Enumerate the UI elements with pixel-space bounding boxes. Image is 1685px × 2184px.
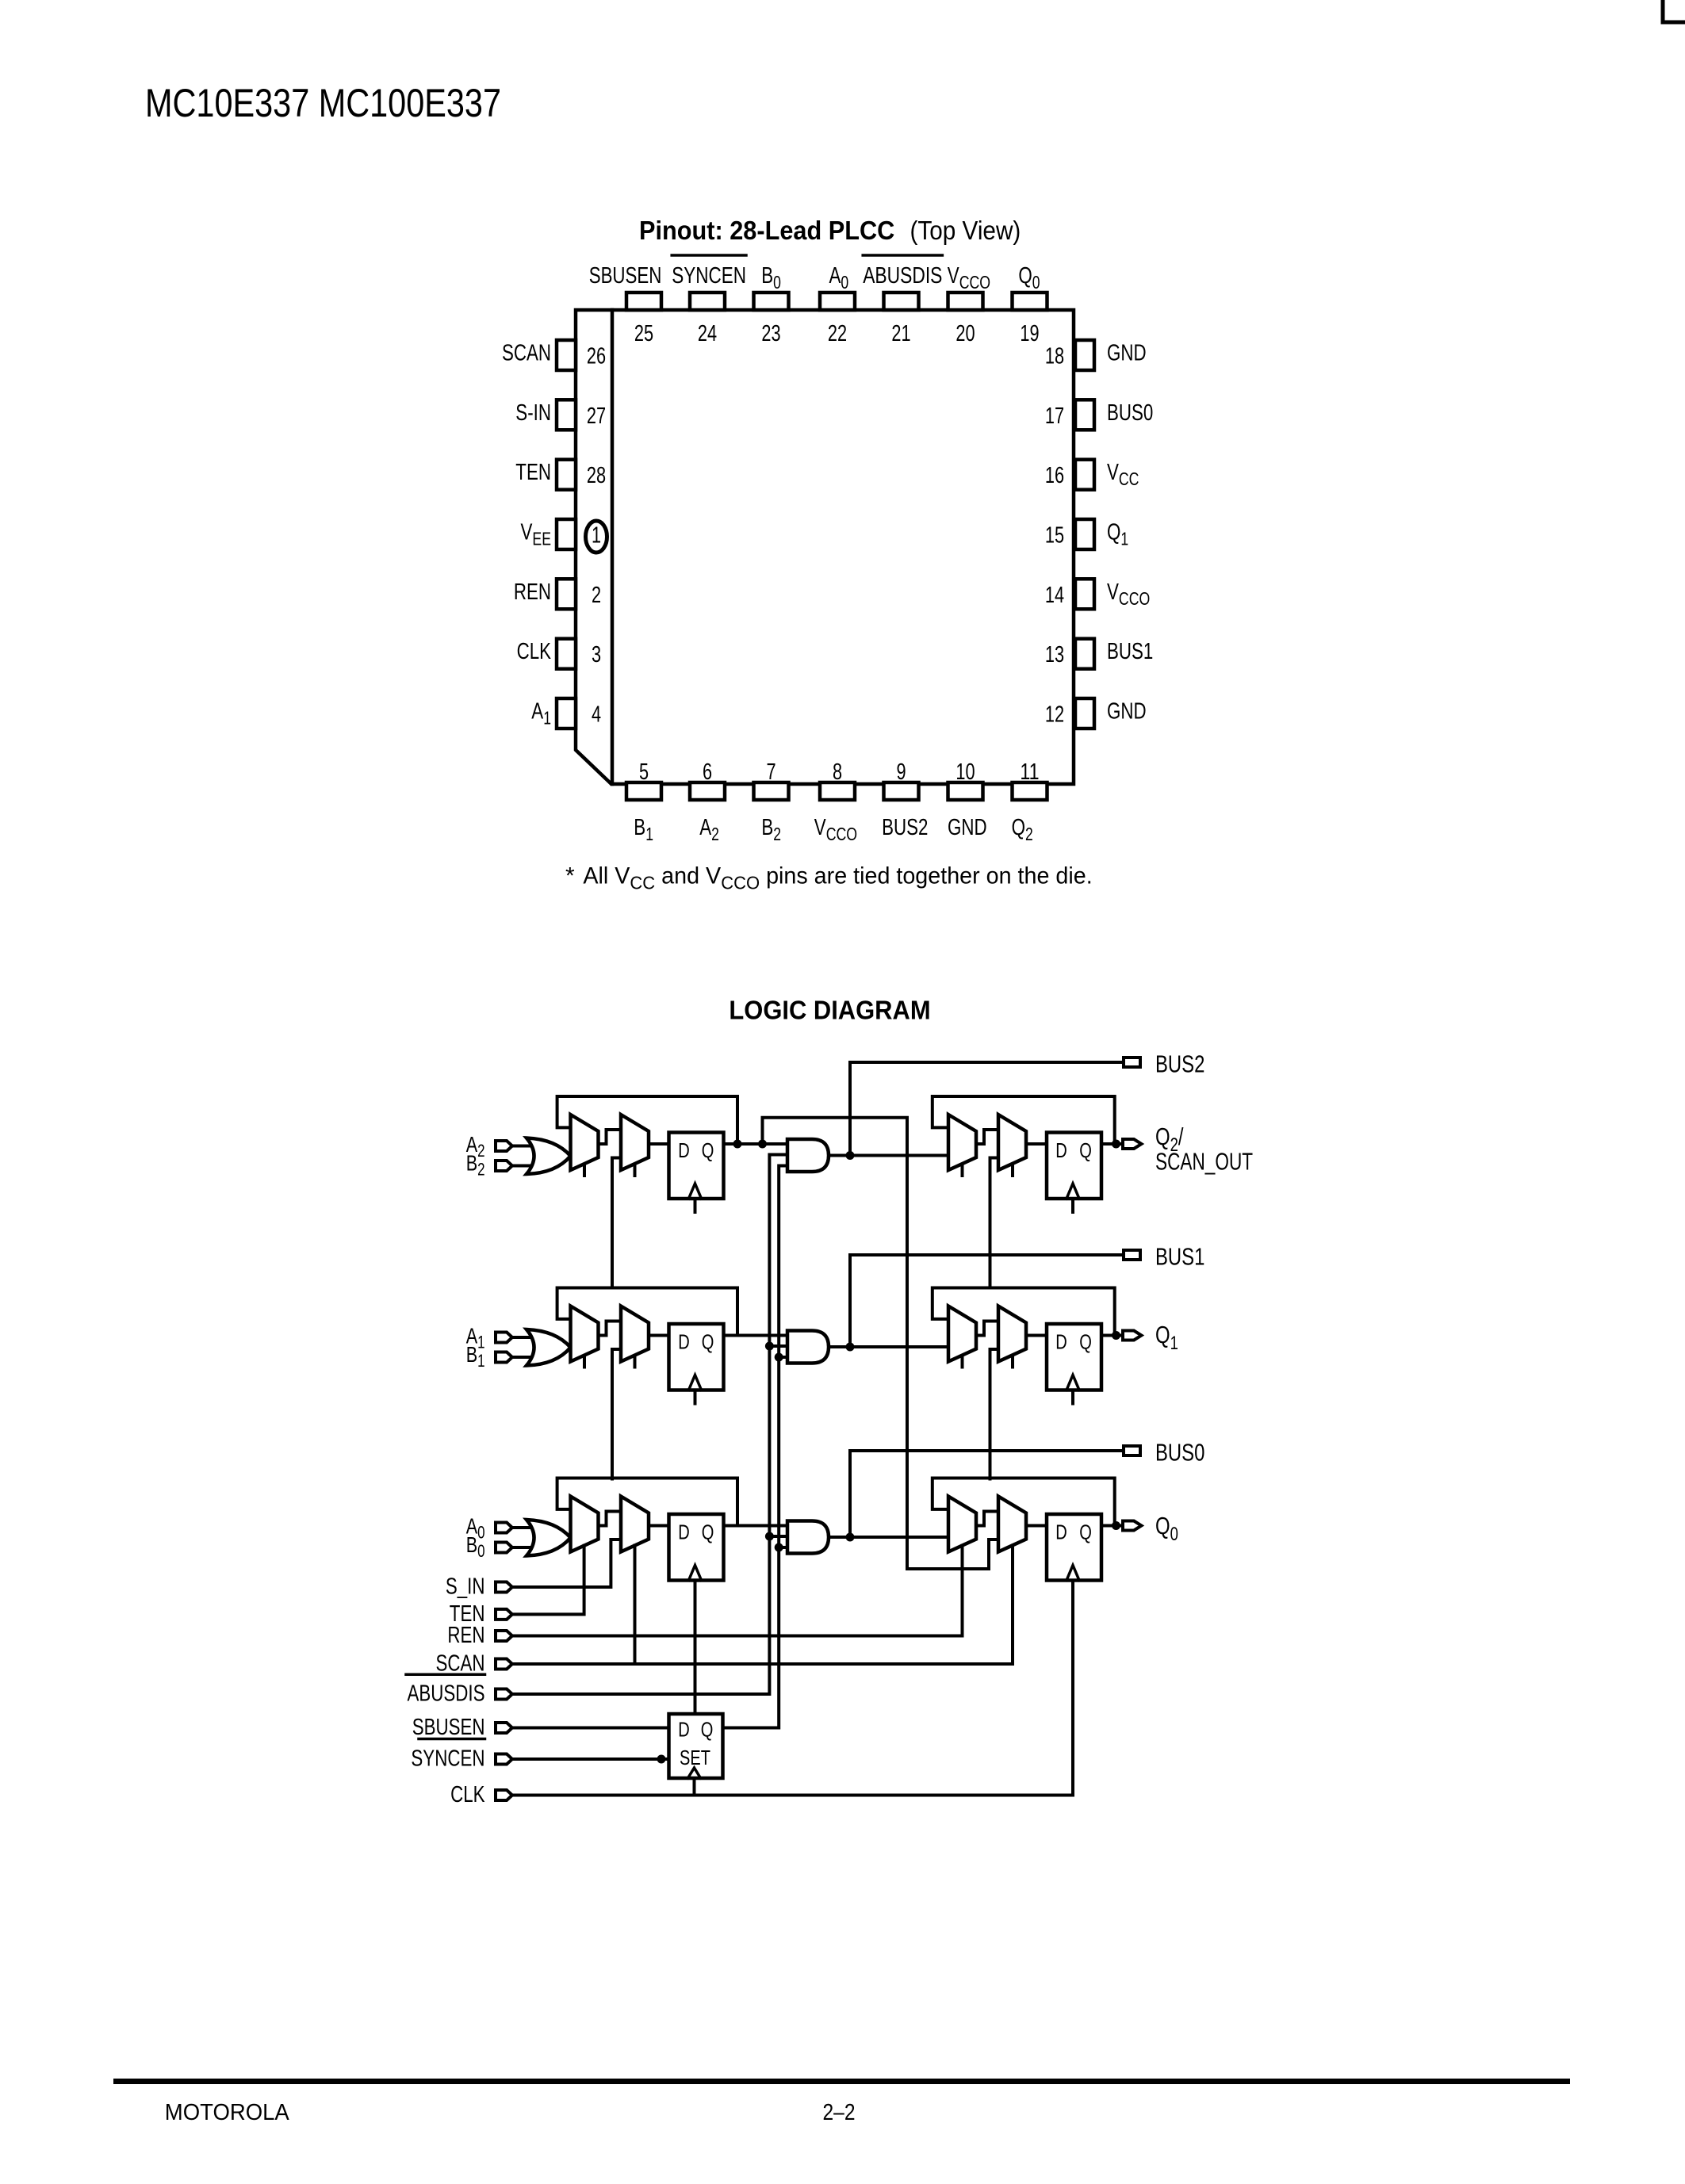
svg-text:MC10E337 MC100E337: MC10E337 MC100E337 xyxy=(145,81,501,125)
pin 19 stub (top) xyxy=(1013,293,1047,310)
wire A1 to OR gate xyxy=(512,1336,534,1339)
wire M1a out jog to M1b xyxy=(599,1321,622,1336)
wire M1d out to FF1R D xyxy=(1026,1334,1047,1337)
mux M0d (scan select) xyxy=(998,1497,1026,1552)
FF1R clock stem xyxy=(1071,1392,1074,1404)
wire M2d out to FF2R D xyxy=(1026,1142,1047,1146)
wire M1c out jog to M1d xyxy=(976,1321,998,1336)
mux M2a (hold/load select) xyxy=(571,1115,599,1170)
feedback loop wire (FF2L hold path) xyxy=(557,1096,737,1144)
wire SCAN branch to M0b select xyxy=(634,1546,637,1665)
svg-text:LOGIC DIAGRAM: LOGIC DIAGRAM xyxy=(729,996,930,1025)
junction dot ABUSDIS/AND0 xyxy=(765,1532,774,1541)
OR gate G2 (A2+B2) xyxy=(527,1138,571,1175)
svg-text:SET: SET xyxy=(680,1746,710,1769)
pin 2 stub (left) xyxy=(557,579,576,609)
FF0R clock wedge xyxy=(1067,1566,1079,1581)
flip-flop FF1R (output register Q1) xyxy=(1047,1324,1101,1390)
pin 5 stub (bottom) xyxy=(626,782,661,800)
pin 8 stub (bottom) xyxy=(820,782,855,800)
mux M0c (bus/hold select) xyxy=(948,1497,976,1552)
FF2L clock stem xyxy=(694,1200,697,1212)
svg-text:(Top View): (Top View) xyxy=(910,216,1021,245)
junction dot SYNCEN at FFS xyxy=(657,1755,666,1764)
svg-text:1: 1 xyxy=(592,523,601,549)
pin 10 stub (bottom) xyxy=(948,782,983,800)
svg-text:D: D xyxy=(1055,1520,1067,1544)
BUS0 terminal xyxy=(1124,1446,1140,1455)
svg-text:25: 25 xyxy=(634,321,653,346)
wire AND1 out to mux M1c xyxy=(829,1345,948,1348)
svg-text:10: 10 xyxy=(955,759,975,785)
wire scan ladder: M1d from Q0 rail xyxy=(990,1349,999,1479)
svg-text:13: 13 xyxy=(1045,642,1064,667)
svg-text:SBUSEN: SBUSEN xyxy=(412,1715,485,1740)
FF0L clock stem xyxy=(694,1582,697,1715)
svg-text:SCAN: SCAN xyxy=(436,1651,485,1677)
input terminal B2 xyxy=(496,1161,512,1171)
svg-text:9: 9 xyxy=(896,759,906,785)
input terminal A2 xyxy=(496,1141,512,1151)
pin 23 stub (top) xyxy=(754,293,789,310)
svg-text:11: 11 xyxy=(1020,759,1039,785)
pin 24 stub (top) xyxy=(690,293,725,310)
svg-text:14: 14 xyxy=(1045,583,1064,608)
wire S_IN to M0b scan input xyxy=(512,1540,621,1587)
pin 4 stub (left) xyxy=(557,698,576,729)
wire FF1L Q to AND1 xyxy=(724,1334,788,1337)
wire M2b out to FF2L D xyxy=(649,1142,669,1146)
wire CLK to FFS clock xyxy=(693,1780,696,1796)
flip-flop FFS (sync bus enable register) xyxy=(669,1714,723,1778)
svg-text:Q: Q xyxy=(702,1138,714,1162)
FF1L clock wedge xyxy=(689,1375,702,1390)
svg-text:18: 18 xyxy=(1045,344,1064,369)
mux M1b select stub xyxy=(634,1357,637,1367)
feedback loop wire (FF0R hold path) xyxy=(932,1478,1115,1526)
svg-text:D: D xyxy=(678,1330,690,1354)
svg-text:7: 7 xyxy=(766,759,775,785)
wire riser to BUS2 xyxy=(850,1062,1124,1156)
mux M2b select stub xyxy=(634,1165,637,1176)
svg-text:19: 19 xyxy=(1020,321,1039,346)
wire riser to BUS1 xyxy=(850,1255,1124,1347)
mux M1d (scan select) xyxy=(998,1306,1026,1362)
input terminal REN xyxy=(496,1631,512,1641)
wire ABUSDIS branch to AND1 xyxy=(769,1344,787,1348)
wire A2 to OR gate xyxy=(512,1145,534,1148)
pin 20 stub (top) xyxy=(948,293,983,310)
svg-text:BUS2: BUS2 xyxy=(882,815,928,840)
pin 7 stub (bottom) xyxy=(754,782,789,800)
output terminal Q0 xyxy=(1123,1521,1142,1531)
wire M2a out jog to M2b xyxy=(599,1130,622,1144)
svg-text:16: 16 xyxy=(1045,463,1064,488)
svg-text:27: 27 xyxy=(587,404,606,429)
mux M2c select stub xyxy=(961,1165,964,1176)
wire ABUSDIS branch to AND0 xyxy=(769,1535,787,1538)
svg-text:5: 5 xyxy=(639,759,649,785)
input terminal SCAN xyxy=(496,1659,512,1670)
wire riser to BUS0 xyxy=(850,1451,1124,1537)
wire FF2R Q to output xyxy=(1101,1142,1123,1146)
flip-flop FF1L (input register) xyxy=(669,1324,724,1390)
wire B2 to OR gate xyxy=(512,1165,534,1168)
FF2R clock wedge xyxy=(1067,1184,1079,1199)
junction dot AND1 out xyxy=(846,1343,855,1352)
svg-text:6: 6 xyxy=(703,759,712,785)
BUS2 terminal xyxy=(1124,1058,1140,1067)
flip-flop FF0R (output register Q0) xyxy=(1047,1514,1101,1581)
wire scan: FF2L Q down to M0d scan input xyxy=(763,1118,999,1569)
overline for ABUSDIS label xyxy=(406,1673,485,1677)
junction dot Q0 output xyxy=(1112,1521,1120,1530)
input terminal ABUSDIS xyxy=(496,1689,512,1700)
pin 1 indicator ellipse xyxy=(586,521,607,553)
mux M1b (scan select) xyxy=(621,1306,649,1362)
BUS1 terminal xyxy=(1124,1250,1140,1260)
FFS clock wedge xyxy=(688,1768,701,1778)
junction dot Q2 output xyxy=(1112,1140,1120,1149)
FF1R clock wedge xyxy=(1067,1375,1079,1390)
feedback loop wire (FF0L hold path) xyxy=(557,1478,737,1526)
mux M2d (scan select) xyxy=(998,1115,1026,1170)
mux M1a select stub xyxy=(583,1357,586,1367)
wire FFS branch to AND1 xyxy=(779,1356,787,1359)
pin 12 stub (right) xyxy=(1075,698,1094,729)
svg-text:BUS0: BUS0 xyxy=(1155,1439,1204,1467)
svg-text:BUS0: BUS0 xyxy=(1107,400,1153,426)
wire SYNCEN to FFS SET input xyxy=(512,1758,669,1761)
svg-text:CLK: CLK xyxy=(517,639,552,664)
FF0L clock wedge xyxy=(689,1566,702,1581)
svg-text:15: 15 xyxy=(1045,523,1064,549)
FF2L clock wedge xyxy=(689,1184,702,1199)
pin 27 stub (left) xyxy=(557,400,576,430)
input terminal SBUSEN xyxy=(496,1723,512,1733)
output terminal Q1 xyxy=(1123,1331,1142,1341)
wire FF1R Q to output xyxy=(1101,1334,1123,1337)
pin 11 stub (bottom) xyxy=(1013,782,1047,800)
svg-text:D: D xyxy=(1055,1330,1067,1354)
input terminal B0 xyxy=(496,1543,512,1553)
svg-text:GND: GND xyxy=(1107,699,1147,725)
flip-flop FF2L (input register) xyxy=(669,1133,724,1199)
svg-text:28: 28 xyxy=(587,463,606,488)
mux M0a (hold/load select) xyxy=(571,1497,599,1552)
wire M0b out to FF0L D xyxy=(649,1524,669,1528)
input terminal A1 xyxy=(496,1333,512,1343)
wire scan ladder: M1b from row0 rail xyxy=(612,1349,621,1479)
OR gate G1 (A1+B1) xyxy=(527,1329,571,1366)
page corner mark (top right) xyxy=(1663,0,1685,22)
flip-flop FF2R (output register Q2) xyxy=(1047,1133,1101,1199)
svg-text:24: 24 xyxy=(698,321,717,346)
svg-text:Q: Q xyxy=(1079,1138,1092,1162)
svg-text:SYNCEN: SYNCEN xyxy=(672,263,746,289)
mux M1c (bus/hold select) xyxy=(948,1306,976,1362)
input terminal CLK xyxy=(496,1790,512,1800)
feedback loop wire (FF1R hold path) xyxy=(932,1288,1115,1336)
wire REN to M0c select xyxy=(512,1546,963,1636)
input terminal SYNCEN xyxy=(496,1754,512,1765)
svg-text:ABUSDIS: ABUSDIS xyxy=(408,1681,485,1707)
junction dot FFS/AND1 xyxy=(775,1353,783,1362)
svg-text:Q: Q xyxy=(1079,1330,1092,1354)
wire FF0L Q to AND0 xyxy=(724,1524,788,1528)
pin 14 stub (right) xyxy=(1075,579,1094,609)
svg-text:SBUSEN: SBUSEN xyxy=(589,263,662,289)
wire scan ladder: M2b from row1 rail xyxy=(612,1158,621,1288)
svg-text:CLK: CLK xyxy=(450,1782,485,1807)
svg-text:D: D xyxy=(1055,1138,1067,1162)
svg-text:D: D xyxy=(678,1718,690,1742)
wire B1 to OR gate xyxy=(512,1356,534,1359)
AND gate AND2 (bus driver) xyxy=(787,1139,829,1172)
wire M1b out to FF1L D xyxy=(649,1334,669,1337)
pin 9 stub (bottom) xyxy=(884,782,919,800)
mux M2a select stub xyxy=(583,1165,586,1176)
svg-text:Q: Q xyxy=(1079,1520,1092,1544)
wire FFS branch to AND0 xyxy=(779,1546,787,1549)
svg-text:8: 8 xyxy=(833,759,842,785)
svg-text:SCAN_OUT: SCAN_OUT xyxy=(1155,1148,1253,1176)
flip-flop FF0L (input register) xyxy=(669,1514,724,1581)
pin 1 stub (left) xyxy=(557,519,576,549)
svg-text:BUS1: BUS1 xyxy=(1107,639,1153,664)
svg-text:REN: REN xyxy=(514,579,551,605)
wire AND2 out to mux M2c xyxy=(829,1154,948,1157)
input terminal TEN xyxy=(496,1609,512,1620)
FF1L clock stem xyxy=(694,1392,697,1404)
svg-text:REN: REN xyxy=(447,1623,484,1648)
wire scan ladder: M2d from Q1 rail xyxy=(990,1158,999,1288)
junction dot ABUSDIS/AND1 xyxy=(765,1342,774,1351)
wire B0 to OR gate xyxy=(512,1546,534,1549)
junction dot AND0 out xyxy=(846,1533,855,1542)
AND gate AND0 (bus driver) xyxy=(787,1521,829,1554)
svg-text:3: 3 xyxy=(592,642,601,667)
input terminal S_IN xyxy=(496,1582,512,1593)
wire M0a out jog to M0b xyxy=(599,1512,622,1526)
wire ABUSDIS to AND gates xyxy=(512,1155,787,1695)
svg-text:SYNCEN: SYNCEN xyxy=(411,1746,484,1772)
pin 25 stub (top) xyxy=(626,293,661,310)
wire M2c out jog to M2d xyxy=(976,1130,998,1144)
mux M1d select stub xyxy=(1011,1357,1014,1367)
svg-text:2–2: 2–2 xyxy=(823,2100,856,2125)
svg-text:Q: Q xyxy=(702,1330,714,1354)
svg-text:4: 4 xyxy=(592,702,601,728)
svg-text:22: 22 xyxy=(828,321,847,346)
pin 3 stub (left) xyxy=(557,639,576,669)
svg-text:ABUSDIS: ABUSDIS xyxy=(863,263,942,289)
wire SCAN to M0d select xyxy=(512,1546,1013,1665)
wire M0c out jog to M0d xyxy=(976,1512,998,1526)
wire CLK distribution xyxy=(512,1582,1073,1796)
junction dot AND2 out xyxy=(846,1151,855,1160)
OR gate G0 (A0+B0) xyxy=(527,1520,571,1556)
junction dot Q1 output xyxy=(1112,1331,1120,1340)
svg-text:GND: GND xyxy=(948,815,987,840)
svg-text:23: 23 xyxy=(761,321,780,346)
junction dot FF2L Q feedback tap xyxy=(733,1140,742,1149)
output terminal Q2 xyxy=(1123,1139,1142,1149)
svg-text:SCAN: SCAN xyxy=(502,341,551,366)
pin 16 stub (right) xyxy=(1075,460,1094,490)
svg-text:D: D xyxy=(678,1520,690,1544)
svg-text:MOTOROLA: MOTOROLA xyxy=(165,2100,290,2125)
pin 18 stub (right) xyxy=(1075,340,1094,370)
wire M0d out to FF0R D xyxy=(1026,1524,1047,1528)
pin 17 stub (right) xyxy=(1075,400,1094,430)
svg-text:S-IN: S-IN xyxy=(515,400,551,426)
svg-text:D: D xyxy=(678,1138,690,1162)
svg-text:Q: Q xyxy=(701,1718,714,1742)
svg-text:BUS2: BUS2 xyxy=(1155,1050,1204,1078)
svg-text:21: 21 xyxy=(891,321,910,346)
pin 28 stub (left) xyxy=(557,460,576,490)
mux M1a (hold/load select) xyxy=(571,1306,599,1362)
svg-text:20: 20 xyxy=(955,321,975,346)
package inner line xyxy=(611,310,615,784)
junction dot FF2L Q scan tap xyxy=(758,1140,767,1149)
svg-text:12: 12 xyxy=(1045,702,1064,728)
wire FF0R Q to output xyxy=(1101,1524,1123,1528)
mux M2d select stub xyxy=(1011,1165,1014,1176)
svg-text:17: 17 xyxy=(1045,404,1064,429)
FF2R clock stem xyxy=(1071,1200,1074,1212)
wire FFS Q to AND gates (lower inputs) xyxy=(723,1166,788,1728)
pin 6 stub (bottom) xyxy=(690,782,725,800)
footer rule xyxy=(117,2079,1568,2084)
feedback loop wire (FF2R hold path) xyxy=(932,1096,1115,1144)
feedback loop wire (FF1L hold path) xyxy=(557,1288,737,1336)
mux M2c (bus/hold select) xyxy=(948,1115,976,1170)
wire A0 to OR gate xyxy=(512,1526,534,1529)
pin 22 stub (top) xyxy=(820,293,855,310)
svg-text:Q: Q xyxy=(702,1520,714,1544)
PLCC package body (chamfered corner pin-1 end) xyxy=(576,310,1074,784)
input terminal B1 xyxy=(496,1352,512,1363)
junction dot FFS/AND0 xyxy=(775,1543,783,1552)
svg-text:2: 2 xyxy=(592,583,601,608)
pin 15 stub (right) xyxy=(1075,519,1094,549)
svg-text:BUS1: BUS1 xyxy=(1155,1243,1204,1271)
mux M2b (scan select) xyxy=(621,1115,649,1170)
input terminal A0 xyxy=(496,1523,512,1533)
svg-text:GND: GND xyxy=(1107,341,1147,366)
wire AND0 out to mux M0c xyxy=(829,1536,948,1539)
pin 26 stub (left) xyxy=(557,340,576,370)
pin 13 stub (right) xyxy=(1075,639,1094,669)
mux M1c select stub xyxy=(961,1357,964,1367)
mux M0b (scan select) xyxy=(621,1497,649,1552)
svg-text:TEN: TEN xyxy=(515,460,551,485)
pin 21 stub (top) xyxy=(884,293,919,310)
wire TEN to M0a select xyxy=(512,1546,584,1615)
overline for SYNCEN label xyxy=(419,1738,485,1741)
svg-text:26: 26 xyxy=(587,344,606,369)
wire FF2L Q to AND2 xyxy=(724,1142,788,1146)
svg-text:Pinout: 28-Lead PLCC: Pinout: 28-Lead PLCC xyxy=(639,216,894,245)
AND gate AND1 (bus driver) xyxy=(787,1331,829,1364)
wire SBUSEN to FFS D input xyxy=(512,1727,669,1730)
svg-text:S_IN: S_IN xyxy=(446,1574,485,1600)
